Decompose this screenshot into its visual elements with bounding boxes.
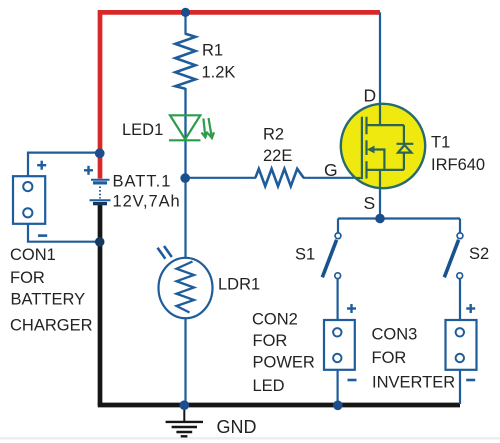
svg-text:IRF640: IRF640 (431, 156, 485, 174)
CON3 minus sign (466, 379, 475, 382)
svg-text:1.2K: 1.2K (202, 63, 236, 81)
wire: red top rail (100, 12, 380, 155)
svg-text:LED: LED (253, 377, 285, 395)
svg-text:CON1: CON1 (10, 246, 56, 264)
page edge line (0, 437, 500, 440)
wire: S1 to CON2 (337, 279, 339, 320)
svg-text:FOR: FOR (10, 269, 45, 287)
connector CON3 (446, 320, 477, 370)
node: top rail R1 junction (181, 8, 190, 17)
battery BATT.1 (90, 180, 111, 204)
svg-text:R2: R2 (263, 126, 284, 144)
ground symbol GND (166, 407, 203, 436)
svg-text:FOR: FOR (253, 332, 288, 350)
wire: node A to R2 (186, 177, 257, 179)
svg-text:S2: S2 (469, 245, 489, 263)
CON1 plus sign (37, 161, 46, 170)
svg-text:G: G (324, 160, 338, 180)
node: CON2 ground junction (333, 401, 343, 411)
wire: R2 to gate (303, 177, 356, 179)
svg-text:GND: GND (217, 417, 257, 437)
LED1 (169, 115, 214, 140)
transistor T1 internal symbol (356, 104, 413, 189)
CON1 minus sign (38, 234, 47, 237)
svg-text:T1: T1 (431, 134, 450, 152)
wire: black bottom ground rail (98, 403, 460, 408)
wire: node A down to LDR1 (184, 178, 186, 259)
connector CON1 (13, 176, 45, 224)
svg-text:POWER: POWER (253, 354, 315, 372)
wire: S2 stub (459, 219, 461, 234)
CON2 plus sign (347, 304, 356, 313)
wire: CON1 plus lead (28, 153, 100, 176)
resistor R2 (255, 169, 303, 186)
svg-text:BATTERY: BATTERY (11, 291, 86, 309)
LDR1 (158, 246, 213, 318)
svg-text:S1: S1 (295, 246, 315, 264)
svg-text:INVERTER: INVERTER (372, 373, 455, 391)
switch S2 (444, 233, 463, 279)
resistor R1 (175, 34, 195, 89)
wire: R1 to LED1 to node A (184, 88, 186, 178)
wire: CON3 to ground rail (459, 370, 461, 404)
svg-text:S: S (364, 193, 376, 213)
wire: LDR1 to ground rail (184, 318, 186, 405)
wire: source lead to switch rail (379, 188, 381, 219)
node A: LED/R2/LDR junction (180, 173, 190, 183)
wire: red stub to battery + (98, 155, 103, 179)
battery plus sign (84, 166, 93, 175)
svg-text:BATT.1: BATT.1 (113, 173, 172, 191)
node: CON1 minus junction (95, 237, 105, 247)
wire: R1 column top (184, 12, 186, 34)
svg-text:D: D (364, 86, 377, 106)
wire: S2 to CON3 (459, 279, 461, 320)
CON2 minus sign (348, 379, 357, 382)
svg-text:12V,7Ah: 12V,7Ah (113, 192, 181, 210)
wire: switch rail horizontal (338, 217, 460, 219)
wire: black battery negative vertical (98, 203, 103, 405)
node: LDR ground junction (180, 400, 190, 410)
svg-text:LED1: LED1 (122, 121, 163, 139)
wire: S1 stub (337, 219, 339, 234)
wire: CON1 minus lead (28, 224, 100, 242)
svg-text:FOR: FOR (372, 349, 407, 367)
svg-text:CHARGER: CHARGER (10, 316, 93, 334)
svg-text:R1: R1 (202, 41, 223, 59)
transistor T1 circle (341, 104, 425, 188)
wire: CON2 to ground rail (337, 370, 339, 405)
connector CON2 (324, 320, 355, 370)
svg-text:CON3: CON3 (372, 325, 418, 343)
node: red rail CON1 junction (95, 148, 105, 158)
transistor T1 gate arrow (367, 146, 375, 154)
svg-text:LDR1: LDR1 (218, 276, 260, 294)
CON3 plus sign (466, 304, 475, 313)
node: source switch junction (375, 214, 385, 224)
wire: drain lead from top rail (379, 12, 381, 105)
svg-text:22E: 22E (263, 147, 292, 165)
switch S1 (322, 233, 341, 279)
svg-text:CON2: CON2 (252, 311, 298, 329)
